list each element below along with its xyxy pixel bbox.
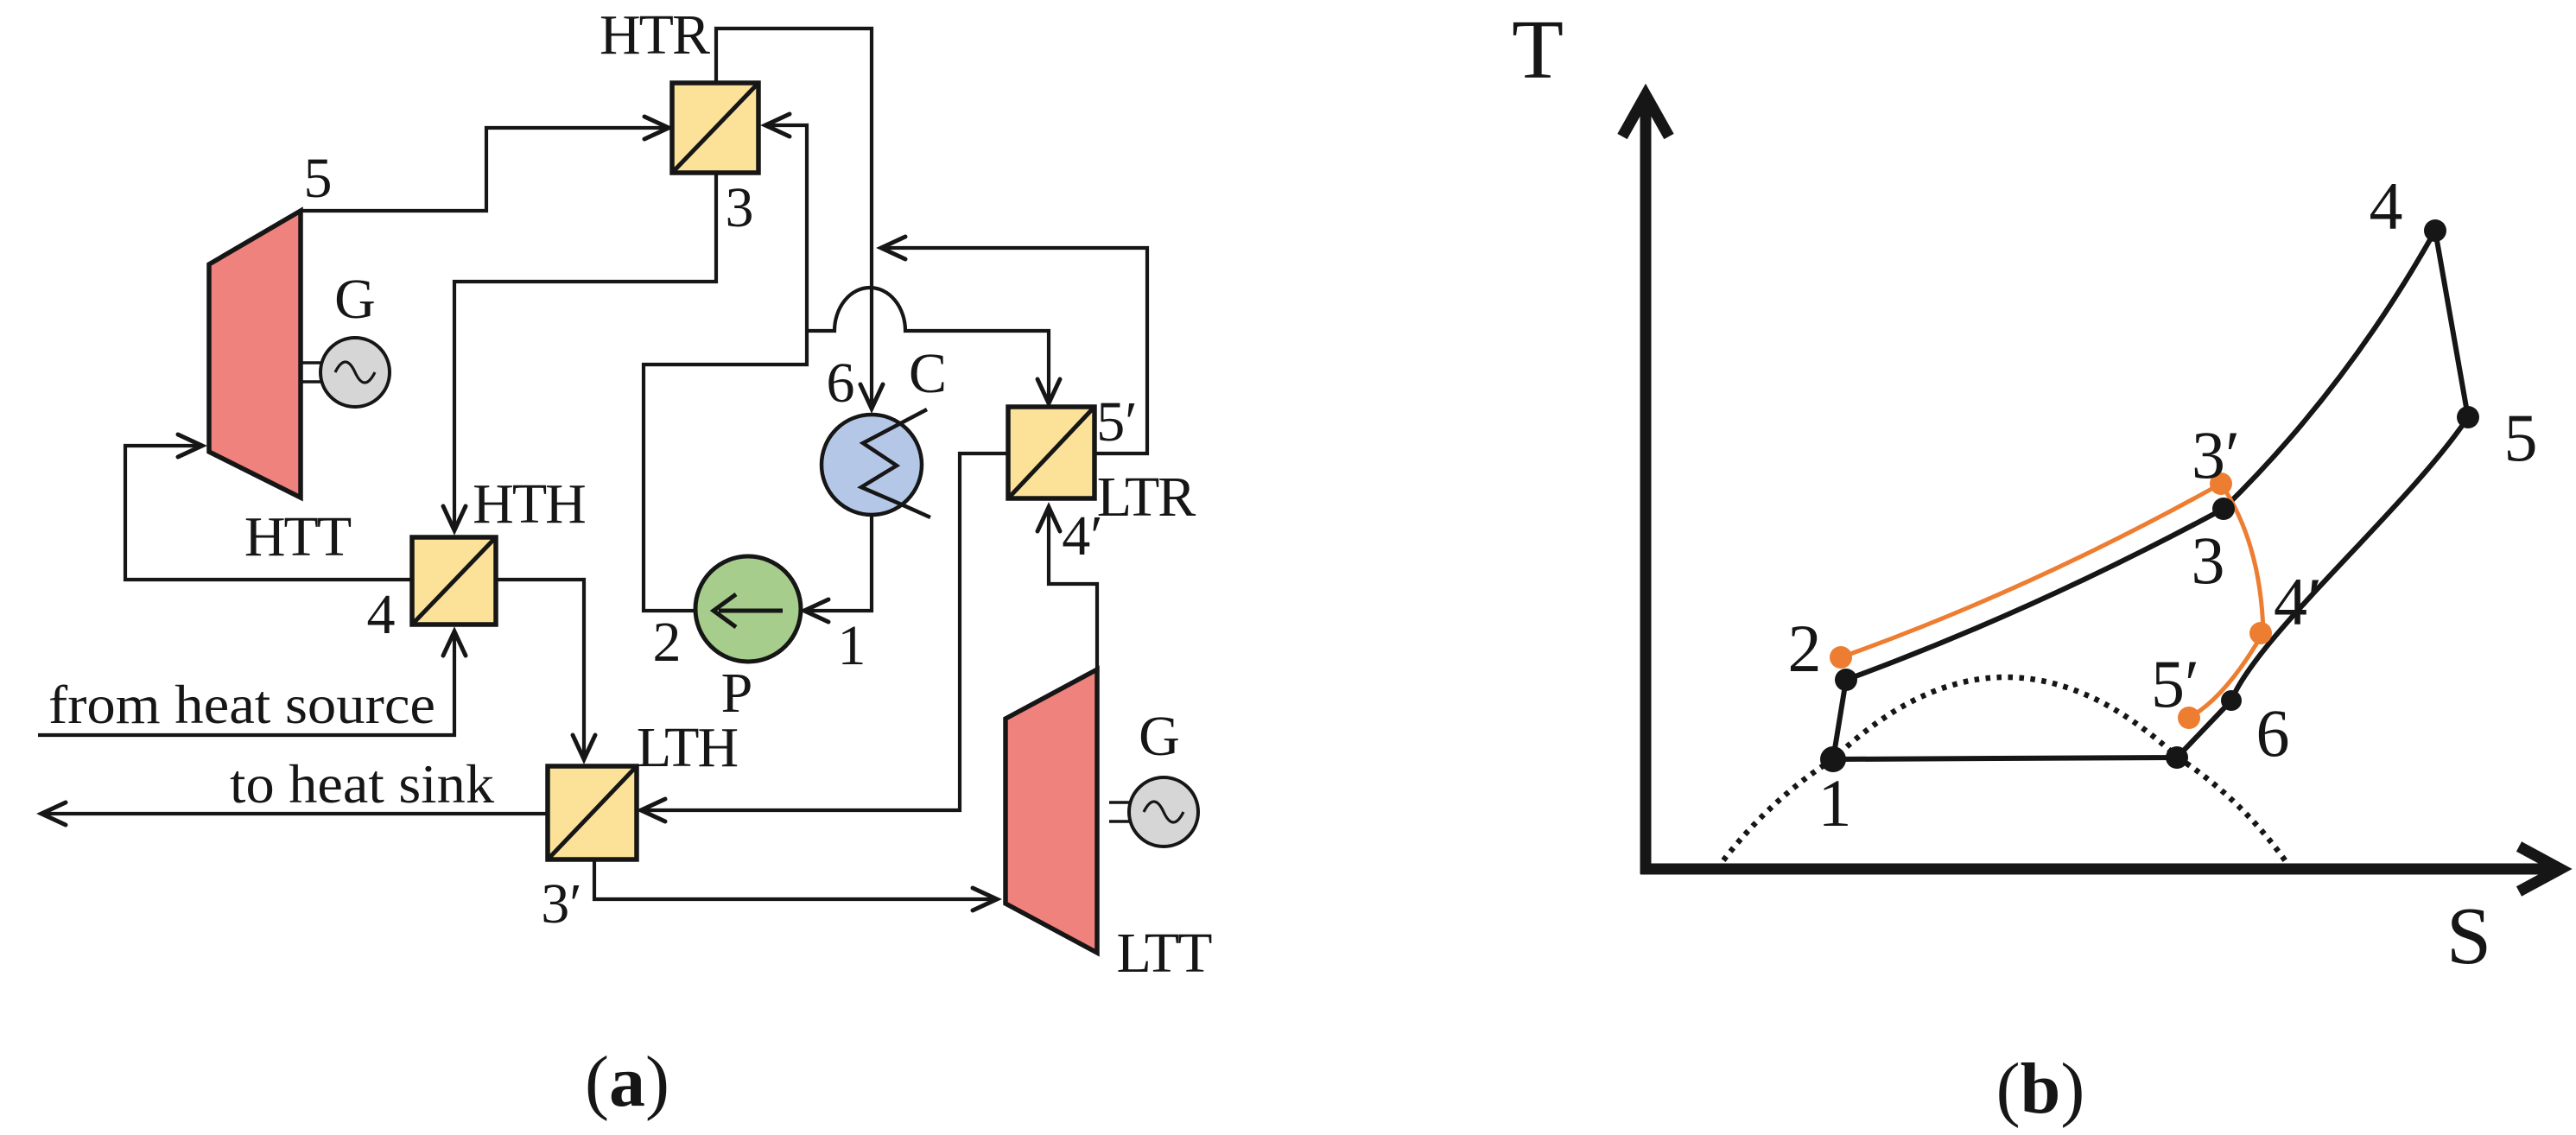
svg-text:LTH: LTH	[637, 716, 738, 779]
svg-text:to heat sink: to heat sink	[230, 753, 494, 815]
svg-text:from heat source: from heat source	[48, 674, 435, 735]
svg-text:4′: 4′	[2274, 564, 2322, 639]
svg-text:2: 2	[653, 611, 682, 674]
svg-text:(a): (a)	[585, 1042, 669, 1122]
svg-text:4: 4	[367, 583, 396, 646]
svg-text:5′: 5′	[2151, 646, 2199, 721]
svg-text:LTT: LTT	[1117, 922, 1213, 985]
svg-text:1: 1	[838, 614, 866, 677]
svg-text:G: G	[334, 268, 376, 331]
svg-text:4′: 4′	[1062, 504, 1102, 567]
svg-text:5′: 5′	[1096, 390, 1137, 453]
svg-text:LTR: LTR	[1097, 466, 1196, 529]
svg-text:(b): (b)	[1996, 1049, 2085, 1129]
svg-text:3: 3	[2192, 523, 2225, 598]
svg-text:5: 5	[2504, 400, 2538, 475]
svg-text:S: S	[2446, 891, 2491, 981]
svg-text:4: 4	[2370, 168, 2403, 244]
svg-text:G: G	[1139, 705, 1180, 768]
svg-text:3′: 3′	[541, 872, 581, 935]
svg-text:3: 3	[726, 176, 754, 239]
svg-text:1: 1	[1818, 765, 1852, 840]
svg-text:6: 6	[2256, 695, 2290, 770]
svg-text:HTR: HTR	[600, 3, 710, 67]
svg-text:HTH: HTH	[473, 472, 585, 536]
svg-text:2: 2	[1788, 611, 1822, 686]
svg-text:T: T	[1512, 3, 1564, 97]
svg-text:6: 6	[827, 352, 855, 415]
svg-text:3′: 3′	[2192, 417, 2240, 492]
svg-text:C: C	[909, 342, 947, 405]
svg-text:5: 5	[304, 147, 333, 210]
svg-text:HTT: HTT	[244, 505, 352, 568]
